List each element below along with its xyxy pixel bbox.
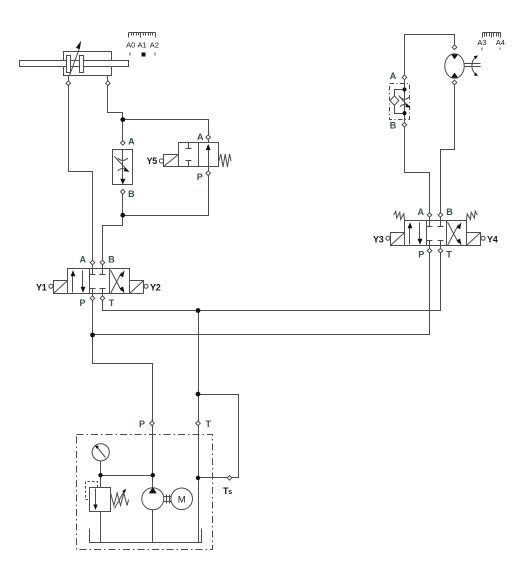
wire: Ts internal branch xyxy=(199,477,229,479)
relief valve adjust arrow xyxy=(115,489,127,509)
connector: check assembly A xyxy=(402,75,407,80)
motor bottom triangle xyxy=(451,73,458,78)
pump xyxy=(142,487,164,510)
wire: check valve assembly B to valve Y3 port A xyxy=(405,125,430,216)
valve Y1 middle box blocked ports xyxy=(90,269,106,294)
wire: cylinder right port to junction N1 xyxy=(108,85,123,120)
flow control valve body xyxy=(113,150,133,185)
throttle (adjustable) xyxy=(399,96,411,108)
solenoid Y4 xyxy=(467,233,481,246)
relief valve spring xyxy=(111,493,129,506)
connector: motor bottom xyxy=(452,80,457,85)
check/throttle assembly dashed box xyxy=(390,84,410,120)
valve Y5 body xyxy=(179,143,219,167)
svg-text:A: A xyxy=(390,71,397,81)
connector: flow valve A xyxy=(121,141,126,146)
valve Y5 spring xyxy=(219,154,231,167)
sensor mark A4 xyxy=(500,48,501,50)
svg-text:A: A xyxy=(128,136,135,146)
svg-text:T: T xyxy=(446,250,452,260)
svg-text:T: T xyxy=(206,419,212,429)
junction N4 xyxy=(196,308,201,313)
svg-text:B: B xyxy=(390,121,397,131)
sensor mark A2 xyxy=(155,53,156,56)
svg-text:A1: A1 xyxy=(138,41,147,50)
ruler scale A0-A2 xyxy=(129,33,156,38)
cylinder port stubs xyxy=(68,76,70,83)
svg-text:A0: A0 xyxy=(126,41,135,50)
connector: Y2 solenoid xyxy=(144,284,148,288)
valve Y5 port A stub xyxy=(208,140,210,143)
svg-text:P: P xyxy=(197,172,203,182)
motor rotation arrow xyxy=(472,55,478,76)
connector: Y3 port B xyxy=(438,213,443,218)
connector: Y1 port P xyxy=(90,296,95,301)
junction: check assembly bottom xyxy=(403,111,407,115)
wire: junction N1 to Y5 port A xyxy=(123,120,209,138)
connector: Y3 port A xyxy=(427,213,432,218)
valve Y3 port stubs xyxy=(430,217,441,250)
svg-text:B: B xyxy=(446,207,453,217)
check valve xyxy=(390,96,399,106)
junction N3 xyxy=(90,333,95,338)
relief valve pilot (dashed) xyxy=(86,482,98,500)
connector: Y5 port A xyxy=(206,135,211,140)
wire: T rail junction N4 down to tank T connector xyxy=(198,311,200,424)
connector: cylinder left port xyxy=(66,81,71,86)
connector: Y1 port A xyxy=(90,260,95,265)
connector: flow valve B xyxy=(121,190,126,195)
valve Y1 port stubs xyxy=(93,265,103,298)
valve Y1 left box arrows xyxy=(71,270,86,293)
ruler scale A3-A4 xyxy=(483,33,501,38)
relief valve arrow xyxy=(93,489,97,511)
hydraulic motor xyxy=(445,54,464,78)
pump-motor coupling xyxy=(164,495,172,504)
connector: Y3 port P xyxy=(427,248,432,253)
check/throttle main line xyxy=(404,80,406,123)
svg-text:Y4: Y4 xyxy=(487,234,498,244)
svg-text:P: P xyxy=(139,419,145,429)
svg-text:M: M xyxy=(178,494,186,505)
wire: motor bottom to valve Y3 port B xyxy=(441,83,455,216)
tank xyxy=(90,529,202,543)
cylinder magnet arrow xyxy=(70,41,82,76)
valve Y3 spring left xyxy=(394,211,405,221)
connector: Y5 port P xyxy=(206,171,211,176)
connector: power unit P xyxy=(150,421,155,426)
valve Y1/Y2 body xyxy=(68,269,130,294)
flow control valve internals xyxy=(115,150,130,185)
wire: gauge line and relief valve line xyxy=(100,461,102,488)
sensor mark A3 xyxy=(482,48,483,51)
valve Y5 left box blocked ports xyxy=(186,143,192,167)
wire: gauge branch horizontal xyxy=(101,475,153,477)
svg-text:A3: A3 xyxy=(477,38,486,47)
junction: T/Ts xyxy=(196,476,200,480)
connector: cylinder right port xyxy=(106,81,111,86)
connector: Y5 solenoid xyxy=(159,159,163,163)
svg-text:A: A xyxy=(197,132,204,142)
wire: junction N3 down to pump P connector xyxy=(93,335,153,424)
check valve branch xyxy=(395,90,405,97)
wire: valve Y1 port P down to junction N3 xyxy=(92,299,94,335)
svg-text:Y1: Y1 xyxy=(36,282,47,292)
wire: Ts loop from junction N5 xyxy=(199,395,239,478)
connector: Ts xyxy=(227,476,232,481)
wire: cylinder left port to valve Y1 port A xyxy=(69,85,93,263)
sensor mark A1 (active) xyxy=(142,53,146,57)
svg-text:P: P xyxy=(418,250,424,260)
svg-text:P: P xyxy=(80,298,86,308)
wire: P rail from junction N3 to valve Y3 port P xyxy=(93,252,430,335)
svg-text:B: B xyxy=(108,255,115,265)
valve Y3/Y4 body xyxy=(405,221,467,246)
junction N2 xyxy=(120,213,125,218)
pressure gauge xyxy=(92,444,109,461)
connector: Y1 solenoid xyxy=(49,284,53,288)
wire: junction N1 to flow valve port A xyxy=(122,120,124,143)
svg-text:A2: A2 xyxy=(150,41,159,50)
svg-text:A: A xyxy=(418,207,425,217)
valve Y3 left box arrows xyxy=(408,222,423,245)
solenoid Y1 xyxy=(54,281,68,294)
wire: junction N2 to valve Y1 port B xyxy=(103,216,123,263)
wire: motor top to check valve assembly A xyxy=(405,35,455,78)
wire: Y5 port P to junction N2 xyxy=(123,174,209,216)
svg-text:Y3: Y3 xyxy=(373,234,384,244)
wire: T connector to tank xyxy=(198,426,200,543)
junction N5 xyxy=(196,392,201,397)
svg-text:Y5: Y5 xyxy=(147,156,158,166)
connector: check assembly B xyxy=(402,123,407,128)
motor top triangle xyxy=(451,54,458,59)
connector: Y1 port T xyxy=(100,296,105,301)
wire: valve Y1 port T to T rail to valve Y3 port T xyxy=(103,252,441,311)
connector: Y4 solenoid xyxy=(481,236,485,240)
valve Y3 spring right xyxy=(466,211,477,221)
svg-text:A4: A4 xyxy=(496,38,505,47)
junction N1 xyxy=(120,117,125,122)
electric motor M xyxy=(171,488,193,510)
wire: pump to tank xyxy=(152,510,154,543)
wire: relief valve to tank xyxy=(100,512,102,543)
wire: flow valve B to junction N2 xyxy=(122,192,124,216)
wire: P connector to pump xyxy=(152,426,154,489)
valve Y5 solenoid xyxy=(164,155,179,167)
cylinder piston plates xyxy=(67,56,71,73)
relief valve body xyxy=(90,488,111,512)
solenoid Y3 xyxy=(391,233,405,246)
connector: Y1 port B xyxy=(100,260,105,265)
connector: motor top xyxy=(452,45,457,50)
junction: check assembly top xyxy=(403,88,407,92)
svg-text:A: A xyxy=(80,255,87,265)
sensor mark A0 xyxy=(130,53,131,56)
valve Y5 right box arrow P to A xyxy=(206,144,211,167)
power unit enclosure (dash-dot box) xyxy=(77,435,213,550)
cylinder body xyxy=(64,52,112,76)
valve Y3 middle box blocked ports xyxy=(427,221,444,246)
svg-text:Y2: Y2 xyxy=(150,282,161,292)
svg-text:B: B xyxy=(128,189,135,199)
junction: gauge/relief xyxy=(98,473,102,477)
junction: pump line xyxy=(151,473,155,477)
cylinder rod xyxy=(20,61,129,67)
connector: power unit T xyxy=(196,421,201,426)
valve Y5 port P stub xyxy=(208,167,210,172)
svg-text:T: T xyxy=(109,298,115,308)
valve Y1 right box cross arrows xyxy=(111,270,125,294)
valve Y3 right box cross arrows xyxy=(448,222,462,246)
solenoid Y2 xyxy=(130,281,144,294)
connector: Y3 port T xyxy=(438,248,443,253)
motor shaft xyxy=(465,64,481,67)
connector: Y3 solenoid xyxy=(386,236,390,240)
